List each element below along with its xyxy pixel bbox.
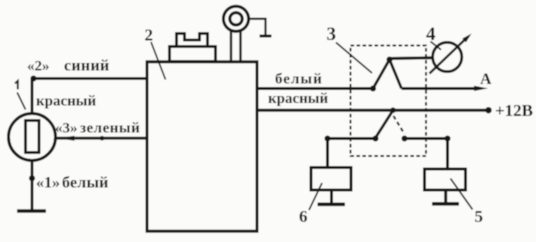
junction blob at wire corner bbox=[31, 76, 37, 82]
label «3» зеленый bbox=[55, 121, 140, 137]
wire to indicator 4 bbox=[390, 56, 434, 60]
label 3 bbox=[327, 24, 373, 73]
label 6 bbox=[299, 183, 322, 226]
resistor 5 bbox=[425, 169, 466, 190]
svg-text:белый: белый bbox=[275, 72, 323, 88]
ground (resistor 5) bbox=[432, 190, 459, 204]
svg-text:+12В: +12В bbox=[495, 101, 533, 120]
relay block 3 (dashed box) bbox=[351, 46, 427, 157]
arrowhead toward sensor bbox=[60, 136, 75, 141]
svg-text:зеленый: зеленый bbox=[80, 121, 140, 137]
svg-text:А: А bbox=[480, 71, 492, 88]
control unit 2 (box) bbox=[147, 62, 257, 231]
label 1 bbox=[15, 81, 26, 110]
ground (top, for eyelet) bbox=[260, 35, 272, 38]
wire «1» белый (sensor bottom to ground) bbox=[29, 161, 35, 211]
resistor 6 bbox=[311, 168, 351, 191]
sensor 1 (lamp with resistive element) bbox=[9, 114, 56, 161]
svg-text:5: 5 bbox=[475, 207, 484, 226]
svg-text:красный: красный bbox=[268, 91, 328, 107]
label 5 bbox=[451, 179, 484, 227]
svg-text:«1»: «1» bbox=[36, 174, 60, 191]
wire красный (unit 2 to +12V) bbox=[256, 109, 488, 112]
arrowhead A bbox=[474, 86, 488, 91]
indicator 4 (lamp with arrow) bbox=[430, 34, 472, 74]
ground (sensor) bbox=[17, 209, 46, 213]
wire «2» синий (sensor top to unit 2) bbox=[32, 79, 147, 115]
svg-text:«2»: «2» bbox=[27, 59, 50, 75]
wire «3» зеленый (unit 2 to sensor) bbox=[54, 136, 147, 141]
wire eyelet to ground bbox=[248, 19, 265, 35]
terminal dot +12V bbox=[485, 107, 491, 113]
svg-text:2: 2 bbox=[145, 25, 154, 44]
label «1» белый bbox=[36, 174, 109, 191]
switch S2 (lower contact group) bbox=[373, 107, 408, 141]
wire белый (unit 2 to switch) bbox=[256, 87, 373, 90]
svg-text:красный: красный bbox=[36, 94, 96, 110]
wire switch to resistor 6 bbox=[325, 136, 376, 169]
label 2 bbox=[145, 25, 166, 79]
junction dot on green wire bbox=[100, 136, 105, 141]
wire A (to output arrow) bbox=[402, 87, 480, 90]
switch S1 (upper contact group) bbox=[370, 57, 402, 92]
svg-text:6: 6 bbox=[299, 207, 308, 226]
label 4 bbox=[426, 24, 441, 50]
wire switch to resistor 5 bbox=[405, 136, 451, 170]
eyelet terminal on unit 2 bbox=[223, 6, 248, 62]
svg-text:белый: белый bbox=[62, 174, 109, 191]
svg-text:«3»: «3» bbox=[55, 121, 78, 137]
connector on top of unit 2 bbox=[170, 34, 216, 62]
svg-text:синий: синий bbox=[64, 58, 109, 75]
label «2» синий bbox=[27, 58, 109, 75]
ground (resistor 6) bbox=[318, 190, 346, 204]
svg-text:3: 3 bbox=[327, 24, 337, 45]
